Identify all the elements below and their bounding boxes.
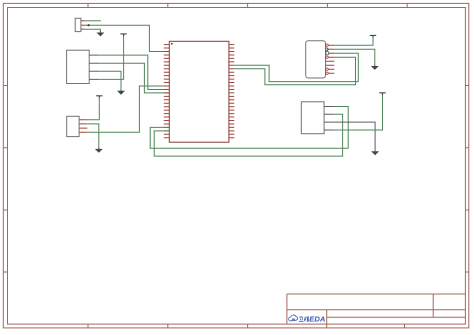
wire net from J1 pin2 to U1 left pin 3 [88, 25, 169, 51]
wire U3 pin2 to ground [87, 124, 99, 147]
power bar P4 [379, 93, 385, 96]
wire net VOUT from J1 pin1 (dangling) [85, 20, 101, 22]
wire from J1 pin3 to ground [85, 29, 100, 31]
wire U4 pin2 to ground [334, 49, 374, 64]
wire U2 pin2 to U1 left pin 14 [99, 63, 169, 93]
U1 left pin stubs [164, 45, 170, 138]
IC U5 body (bottom-right) [301, 102, 324, 134]
wire U5 pin4 to power P4 [334, 95, 383, 130]
wire U4 pin3 wrap-around to U1 right pin 7 [234, 53, 358, 81]
ground GND3 at U3 pin2 [98, 147, 100, 149]
wire U3 pin4 to U1 left pin 12 [87, 86, 169, 132]
U1 pin1 marker dot [171, 43, 173, 45]
U4 pin stubs 1-8 [326, 45, 335, 73]
J1 pin 1 stub [81, 20, 85, 22]
IC U2 body (middle-left) [67, 50, 90, 83]
wire U5 pin2 to U1 left pin 26 [154, 114, 342, 156]
U3 pin stubs [79, 120, 87, 132]
wire U3 pin1 to power P2 [87, 98, 99, 120]
IC U1 body (large center) [169, 41, 229, 142]
U4 pin inversion circles [326, 44, 328, 46]
title block [287, 294, 466, 328]
IC U3 body (bottom-left) [67, 116, 79, 136]
J1 pin 2 stub [81, 24, 88, 26]
ground GND1 at J1 pin3 [99, 31, 101, 33]
wire U4 pin4 wrap-around to U1 right pin 8 [234, 57, 355, 85]
wire U5 pin1 to U1 left pin 25 [150, 107, 348, 149]
power bar P2 [96, 96, 102, 99]
ground GND2 at U2 pin3 [120, 89, 122, 91]
wire U2 pin3 to ground [99, 71, 121, 89]
power bar P3 [370, 35, 376, 38]
IC U4 body (top-right, rounded) [306, 41, 326, 78]
wire U5 pin3 to ground (gray net) [334, 122, 375, 150]
connector J1 body [75, 18, 81, 31]
junction dot on J1 pin2 wire [88, 24, 90, 26]
wire U2 pin4 to power P1 [99, 37, 124, 80]
ground GND5 at U5 pin3 [374, 150, 376, 151]
logo text 立创 glyphs [299, 316, 308, 322]
logo cloud icon [289, 315, 298, 321]
svg-text:EDA: EDA [309, 315, 325, 324]
wire U4 pin1 to power P3 [334, 38, 373, 45]
U5 pin stubs [324, 107, 334, 131]
U1 right pin stubs [229, 45, 234, 138]
power bar P1 [120, 34, 126, 37]
ground GND4 at U4 pin2 [374, 64, 376, 66]
J1 pin 3 stub [81, 28, 85, 30]
wire U2 pin1 to U1 left pin 13 [99, 55, 169, 89]
U2 pin stubs [89, 55, 99, 79]
